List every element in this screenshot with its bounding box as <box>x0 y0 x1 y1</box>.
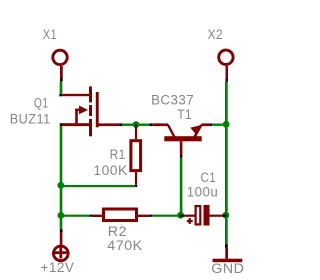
svg-text:BC337: BC337 <box>151 92 194 107</box>
svg-text:BUZ11: BUZ11 <box>10 111 51 126</box>
svg-text:C1: C1 <box>201 170 217 185</box>
svg-text:+12V: +12V <box>41 260 75 275</box>
svg-text:GND: GND <box>211 261 244 276</box>
svg-text:Q1: Q1 <box>34 95 49 110</box>
svg-text:470K: 470K <box>107 238 142 253</box>
svg-text:X1: X1 <box>43 27 57 42</box>
svg-text:X2: X2 <box>208 27 223 42</box>
svg-text:R1: R1 <box>110 147 126 162</box>
svg-text:100u: 100u <box>187 184 218 199</box>
svg-text:100K: 100K <box>93 163 127 178</box>
svg-text:R2: R2 <box>108 224 127 239</box>
svg-text:T1: T1 <box>177 107 192 122</box>
